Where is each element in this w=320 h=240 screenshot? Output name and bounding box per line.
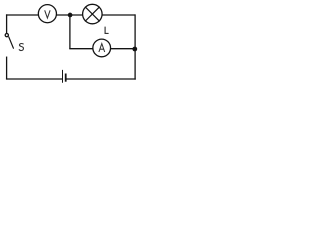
lamp circle xyxy=(83,4,103,24)
wire bottom-right segment xyxy=(67,78,136,80)
lamp label L xyxy=(105,27,109,34)
switch lever xyxy=(9,37,14,48)
lamp cross xyxy=(85,7,99,21)
wire top-left segment xyxy=(7,14,38,16)
voltmeter label V xyxy=(45,10,50,18)
ammeter circle xyxy=(93,39,111,57)
wire left side lower xyxy=(6,57,8,79)
node junction dot top xyxy=(68,13,73,18)
switch label S xyxy=(19,44,23,51)
wire left side upper xyxy=(6,15,8,33)
wire voltmeter to lamp xyxy=(57,14,82,16)
wire lamp to top-right corner xyxy=(103,14,135,16)
wire branch horizontal to ammeter xyxy=(70,48,93,50)
wire right side vertical xyxy=(134,15,136,79)
wire bottom-left segment xyxy=(7,78,62,80)
switch terminal circle xyxy=(5,34,8,37)
battery short plate xyxy=(65,74,67,80)
node junction dot right xyxy=(132,47,137,52)
ammeter label A xyxy=(99,44,105,52)
battery long plate xyxy=(62,70,64,82)
voltmeter circle xyxy=(38,5,56,23)
wire branch vertical from top node xyxy=(69,16,71,48)
wire ammeter to right node xyxy=(111,48,133,50)
